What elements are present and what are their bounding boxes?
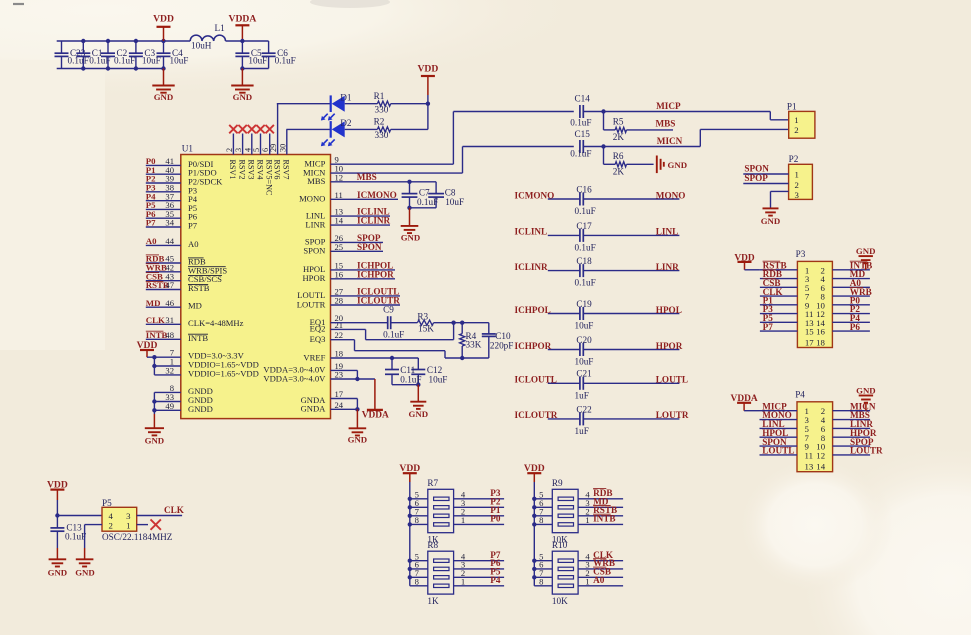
- svg-text:A0: A0: [146, 236, 157, 246]
- svg-text:10uF: 10uF: [429, 375, 448, 385]
- svg-text:MICN: MICN: [657, 136, 683, 146]
- svg-text:LOUTR: LOUTR: [297, 299, 326, 309]
- svg-text:P3: P3: [796, 249, 806, 259]
- svg-text:RSV6: RSV6: [272, 160, 281, 180]
- svg-text:46: 46: [165, 298, 174, 308]
- svg-text:10uF: 10uF: [445, 197, 464, 207]
- svg-text:P2: P2: [789, 154, 799, 164]
- svg-text:C14: C14: [575, 94, 591, 104]
- svg-text:17: 17: [335, 389, 344, 399]
- svg-text:R3: R3: [417, 311, 428, 321]
- svg-text:C16: C16: [576, 184, 592, 194]
- svg-text:RSV2: RSV2: [237, 160, 246, 180]
- svg-text:MBS: MBS: [357, 172, 377, 182]
- svg-text:8: 8: [539, 577, 543, 587]
- svg-text:1: 1: [585, 515, 589, 525]
- svg-text:47: 47: [165, 280, 174, 290]
- svg-text:LINR: LINR: [656, 262, 679, 272]
- svg-text:16: 16: [335, 269, 344, 279]
- svg-text:CLK: CLK: [164, 505, 185, 515]
- svg-text:EQ2: EQ2: [310, 324, 326, 334]
- svg-text:49: 49: [165, 401, 174, 411]
- svg-text:GND: GND: [668, 160, 688, 170]
- svg-text:32: 32: [165, 365, 174, 375]
- svg-text:VDD: VDD: [418, 64, 439, 75]
- svg-text:18: 18: [335, 349, 344, 359]
- svg-text:C12: C12: [427, 365, 443, 375]
- svg-text:8: 8: [415, 515, 419, 525]
- svg-text:21: 21: [335, 320, 344, 330]
- svg-text:330: 330: [375, 130, 389, 140]
- svg-text:R2: R2: [374, 117, 385, 127]
- svg-text:GND: GND: [145, 436, 165, 446]
- svg-text:GND: GND: [856, 246, 876, 256]
- svg-text:P4: P4: [795, 389, 805, 399]
- svg-text:LOUTR: LOUTR: [656, 410, 689, 420]
- svg-text:GND: GND: [233, 92, 253, 102]
- svg-text:1: 1: [461, 577, 465, 587]
- svg-text:RSV1: RSV1: [228, 160, 237, 180]
- svg-text:44: 44: [165, 236, 174, 246]
- svg-text:EQ3: EQ3: [310, 334, 326, 344]
- svg-text:C20: C20: [576, 335, 592, 345]
- svg-text:4: 4: [109, 511, 114, 521]
- svg-text:3: 3: [126, 511, 131, 521]
- svg-text:11: 11: [335, 190, 343, 200]
- svg-text:220pF: 220pF: [490, 340, 514, 350]
- svg-text:ICMONO: ICMONO: [357, 190, 397, 200]
- svg-text:GND: GND: [75, 567, 95, 577]
- svg-text:MD: MD: [188, 301, 202, 311]
- svg-text:C8: C8: [445, 187, 456, 197]
- svg-text:8: 8: [415, 577, 419, 587]
- svg-text:C22: C22: [576, 404, 592, 414]
- svg-text:C21: C21: [576, 369, 592, 379]
- svg-text:MICP: MICP: [656, 101, 681, 111]
- svg-text:RSV3: RSV3: [247, 160, 256, 180]
- svg-text:LOUTL: LOUTL: [656, 375, 688, 385]
- svg-text:0.1uF: 0.1uF: [575, 206, 596, 216]
- svg-text:330: 330: [375, 104, 389, 114]
- svg-text:29: 29: [269, 144, 278, 152]
- svg-text:24: 24: [335, 400, 344, 410]
- svg-text:2: 2: [225, 148, 234, 152]
- svg-text:0.1uF: 0.1uF: [65, 531, 86, 541]
- svg-text:1: 1: [461, 515, 465, 525]
- svg-text:VDD: VDD: [153, 14, 174, 25]
- svg-text:1: 1: [585, 577, 589, 587]
- svg-text:LOUTL: LOUTL: [762, 446, 794, 456]
- svg-text:C18: C18: [576, 256, 592, 266]
- svg-text:1: 1: [126, 521, 130, 531]
- svg-text:CLK=4-48MHz: CLK=4-48MHz: [188, 318, 244, 328]
- svg-text:GND: GND: [856, 386, 876, 396]
- svg-text:VDDIO=1.65~VDD: VDDIO=1.65~VDD: [188, 368, 259, 378]
- svg-text:R5: R5: [613, 117, 624, 127]
- svg-text:C7: C7: [419, 187, 430, 197]
- svg-text:1uF: 1uF: [575, 426, 589, 436]
- svg-text:16: 16: [816, 327, 825, 337]
- svg-text:14: 14: [816, 462, 825, 472]
- svg-text:MONO: MONO: [656, 190, 686, 200]
- svg-text:GND: GND: [409, 409, 429, 419]
- svg-text:22: 22: [335, 330, 344, 340]
- svg-text:15K: 15K: [418, 324, 434, 334]
- svg-text:P7: P7: [146, 218, 156, 228]
- svg-text:1uF: 1uF: [575, 390, 589, 400]
- svg-text:P7: P7: [763, 322, 774, 332]
- svg-text:LOUTR: LOUTR: [850, 446, 883, 456]
- svg-text:HPOL: HPOL: [656, 305, 682, 315]
- svg-text:L1: L1: [215, 23, 226, 33]
- svg-text:INTB: INTB: [593, 514, 615, 524]
- svg-text:ICHPOL: ICHPOL: [515, 305, 551, 315]
- svg-text:C9: C9: [383, 304, 394, 314]
- svg-text:1: 1: [795, 170, 799, 180]
- svg-text:R1: R1: [374, 91, 385, 101]
- svg-text:A0: A0: [593, 575, 605, 585]
- svg-text:D1: D1: [340, 93, 352, 103]
- svg-text:C17: C17: [576, 221, 592, 231]
- svg-text:14: 14: [335, 216, 344, 226]
- svg-text:SPOP: SPOP: [744, 173, 768, 183]
- svg-text:0.1uF: 0.1uF: [400, 375, 421, 385]
- svg-text:0.1uF: 0.1uF: [570, 118, 591, 128]
- svg-text:P5: P5: [102, 498, 112, 508]
- svg-text:RSV4: RSV4: [255, 160, 264, 180]
- svg-text:ICHPOR: ICHPOR: [515, 341, 552, 351]
- svg-text:GND: GND: [154, 92, 174, 102]
- svg-text:GND: GND: [348, 435, 368, 445]
- svg-text:ICMONO: ICMONO: [515, 190, 555, 200]
- svg-text:0.1uF: 0.1uF: [383, 330, 404, 340]
- svg-text:10uF: 10uF: [575, 321, 594, 331]
- svg-text:LINR: LINR: [305, 219, 325, 229]
- svg-text:R6: R6: [613, 151, 624, 161]
- svg-text:P7: P7: [188, 221, 198, 231]
- svg-text:ICLINR: ICLINR: [357, 216, 391, 226]
- svg-text:GND: GND: [761, 216, 781, 226]
- svg-text:SPON: SPON: [744, 163, 769, 173]
- svg-text:U1: U1: [182, 144, 194, 154]
- svg-text:2K: 2K: [613, 166, 625, 176]
- svg-text:17: 17: [805, 337, 814, 347]
- svg-text:GND: GND: [48, 567, 68, 577]
- svg-text:GNDD: GNDD: [188, 404, 213, 414]
- svg-text:C15: C15: [575, 129, 591, 139]
- svg-text:MONO: MONO: [299, 194, 325, 204]
- svg-text:34: 34: [165, 218, 174, 228]
- svg-text:12: 12: [816, 450, 825, 460]
- svg-text:0.1uF: 0.1uF: [575, 242, 596, 252]
- svg-text:15: 15: [805, 327, 814, 337]
- svg-text:A0: A0: [188, 239, 199, 249]
- svg-text:10K: 10K: [552, 596, 568, 606]
- svg-text:10uF: 10uF: [575, 357, 594, 367]
- svg-text:P0: P0: [490, 514, 501, 524]
- svg-text:ICLINR: ICLINR: [515, 262, 549, 272]
- svg-text:1: 1: [794, 115, 798, 125]
- svg-text:SPON: SPON: [303, 246, 326, 256]
- svg-text:5: 5: [252, 148, 261, 152]
- svg-text:0.1uF: 0.1uF: [275, 55, 296, 65]
- svg-text:HPOR: HPOR: [302, 273, 325, 283]
- svg-text:OSC/22.1184MHZ: OSC/22.1184MHZ: [102, 532, 173, 542]
- svg-text:C11: C11: [400, 365, 415, 375]
- svg-text:SPON: SPON: [357, 242, 382, 252]
- svg-text:30: 30: [278, 144, 287, 152]
- svg-text:28: 28: [335, 296, 344, 306]
- svg-text:ICHPOR: ICHPOR: [357, 269, 394, 279]
- svg-text:VDDA: VDDA: [229, 14, 257, 25]
- svg-text:33K: 33K: [466, 340, 482, 350]
- svg-text:VDDA: VDDA: [362, 410, 389, 420]
- svg-text:VREF: VREF: [303, 352, 325, 362]
- svg-text:2K: 2K: [613, 132, 625, 142]
- svg-text:R7: R7: [427, 478, 438, 488]
- svg-text:P1: P1: [787, 101, 797, 111]
- svg-text:2: 2: [794, 125, 798, 135]
- svg-text:18: 18: [816, 337, 825, 347]
- svg-text:31: 31: [165, 315, 174, 325]
- svg-text:HPOR: HPOR: [656, 341, 683, 351]
- svg-text:RSV5=NC: RSV5=NC: [265, 160, 274, 197]
- svg-text:LINL: LINL: [656, 227, 678, 237]
- svg-text:P4: P4: [490, 575, 501, 585]
- svg-text:48: 48: [165, 330, 174, 340]
- svg-text:R8: R8: [427, 540, 438, 550]
- svg-text:CLK: CLK: [146, 315, 165, 325]
- svg-text:MD: MD: [146, 298, 161, 308]
- svg-text:MBS: MBS: [307, 176, 325, 186]
- svg-text:D2: D2: [340, 118, 352, 128]
- svg-text:0.1uF: 0.1uF: [570, 149, 591, 159]
- svg-text:MBS: MBS: [656, 119, 676, 129]
- svg-text:8: 8: [539, 515, 543, 525]
- svg-text:3: 3: [234, 148, 243, 152]
- svg-text:GNDA: GNDA: [301, 404, 327, 414]
- svg-text:0.1uF: 0.1uF: [575, 278, 596, 288]
- svg-text:VDDA=3.0~4.0V: VDDA=3.0~4.0V: [263, 373, 326, 383]
- svg-text:ICLOUTR: ICLOUTR: [515, 410, 558, 420]
- svg-text:P6: P6: [850, 322, 861, 332]
- svg-text:2: 2: [109, 521, 113, 531]
- svg-text:R9: R9: [552, 478, 563, 488]
- svg-text:2: 2: [795, 180, 799, 190]
- svg-text:1K: 1K: [427, 596, 439, 606]
- svg-text:10uF: 10uF: [170, 55, 189, 65]
- svg-text:C19: C19: [576, 299, 592, 309]
- svg-text:11: 11: [805, 450, 813, 460]
- svg-text:ICLOUTL: ICLOUTL: [515, 375, 557, 385]
- svg-text:13: 13: [805, 462, 814, 472]
- svg-text:4: 4: [243, 148, 252, 152]
- svg-text:RSV7: RSV7: [282, 160, 291, 180]
- svg-text:GND: GND: [401, 233, 421, 243]
- svg-text:R10: R10: [552, 540, 568, 550]
- svg-text:0.1uF: 0.1uF: [417, 197, 438, 207]
- svg-text:10uH: 10uH: [191, 41, 212, 51]
- svg-text:ICLINL: ICLINL: [515, 227, 548, 237]
- svg-text:25: 25: [335, 242, 344, 252]
- svg-text:3: 3: [795, 190, 800, 200]
